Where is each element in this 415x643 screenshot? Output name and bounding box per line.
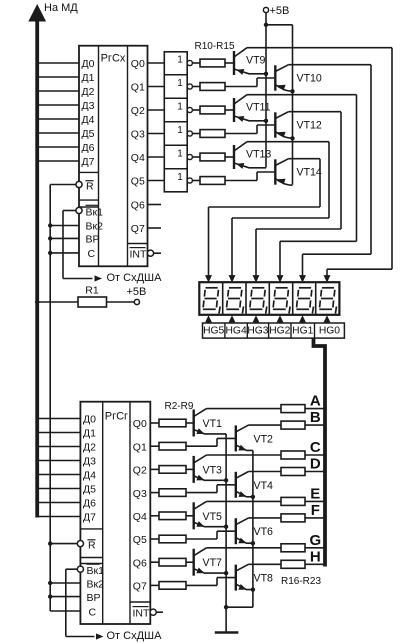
divider below Д7 (РгСх) — [79, 171, 99, 173]
wire Q0 (РгСг to R2) — [150, 422, 159, 424]
label VT8 — [254, 573, 274, 585]
pin label Д1 (РгСг) — [83, 428, 96, 440]
resistor R13 — [200, 130, 225, 138]
pin label Вк1 (РгСг) — [87, 564, 105, 577]
display digit segments HG1 — [296, 288, 313, 314]
pin Вк1 (РгСх) inversion circle and wire — [63, 207, 82, 213]
transistor VT3 — [186, 455, 226, 483]
display digit segments HG3 — [250, 288, 267, 314]
inverter cell 5 output circle — [187, 154, 192, 159]
wire joining emitter buses — [224, 605, 253, 609]
svg-text:Q1: Q1 — [131, 82, 145, 94]
svg-text:Вк2: Вк2 — [87, 578, 105, 590]
label На МД — [44, 2, 78, 14]
transistor VT13 — [225, 142, 329, 169]
pin label Д3 (РгСх) — [82, 100, 95, 112]
wire ВР (РгСг) — [48, 594, 80, 598]
pin label Q6 (РгСг) — [133, 557, 147, 569]
wire ВР (РгСх) — [48, 236, 79, 240]
wire emitter bus (VT1,3,5,7) to ground — [224, 434, 228, 607]
wire Q3 (РгСх to inverter 4) — [148, 133, 165, 135]
transistor VT14 — [225, 159, 320, 186]
svg-text:HG1: HG1 — [292, 326, 313, 337]
wire emitter bus (VT2,4,6,8) — [251, 450, 255, 607]
svg-text:РгСх: РгСх — [101, 53, 126, 65]
resistor R18 — [281, 451, 305, 459]
wire Д5 (bus to РгСх) — [39, 132, 79, 134]
svg-text:Q4: Q4 — [131, 152, 145, 164]
svg-text:R: R — [88, 539, 96, 551]
pin label Д4 (РгСх) — [82, 114, 95, 126]
label segment D — [310, 456, 321, 473]
node VT9 emitter to +5В rail — [264, 72, 268, 76]
wire collector VT10/HG1 to display digit — [299, 65, 371, 283]
svg-text:VT10: VT10 — [297, 73, 322, 85]
display digit segments HG4 — [226, 288, 243, 314]
pin label Q1 (РгСг) — [133, 441, 147, 453]
pin label Q0 (РгСх) — [131, 58, 145, 70]
label VT4 — [254, 480, 274, 492]
pin label Q5 (РгСх) — [131, 176, 145, 188]
pin label Q3 (РгСг) — [133, 488, 147, 500]
pin label Вк2 (РгСг) — [87, 578, 105, 590]
svg-text:HG2: HG2 — [269, 326, 290, 337]
resistor R17 — [281, 421, 305, 429]
bus На МД (thick data bus with up arrow) — [28, 4, 46, 518]
pin label Q6 (РгСх) — [131, 200, 145, 212]
pin R̄ (РгСх) inversion circle and wire — [50, 181, 82, 187]
svg-text:R10-R15: R10-R15 — [195, 41, 235, 52]
wire collector VT14/HG5 to display digit — [205, 159, 320, 283]
svg-text:Д2: Д2 — [83, 442, 96, 454]
svg-text:1: 1 — [177, 149, 183, 160]
transistor VT11 — [225, 95, 357, 122]
wire Д3 (bus to РгСх) — [39, 104, 79, 106]
wire +5В left rail — [265, 25, 267, 168]
svg-text:Q0: Q0 — [131, 58, 145, 70]
svg-text:D: D — [310, 456, 321, 473]
svg-text:Д7: Д7 — [83, 512, 96, 524]
svg-text:Q3: Q3 — [131, 129, 145, 141]
wire collector VT12/HG3 to display digit — [253, 112, 342, 283]
inverter cell 6 output circle — [187, 178, 192, 183]
pin label Q3 (РгСх) — [131, 129, 145, 141]
label HG1 — [292, 326, 313, 337]
wire R1 to +5В terminal — [107, 301, 135, 303]
svg-text:VT13: VT13 — [246, 148, 271, 160]
wire Д6 (bus to РгСг) — [39, 502, 80, 504]
pin label ВР (РгСх) — [86, 234, 100, 246]
inverter cell 1 output circle — [187, 60, 192, 65]
label R16-R23 — [281, 576, 321, 587]
svg-text:VT11: VT11 — [246, 101, 271, 113]
pin label Q7 (РгСх) — [131, 223, 145, 235]
svg-text:VT4: VT4 — [254, 480, 274, 492]
label segment B — [310, 409, 321, 426]
svg-text:VT6: VT6 — [254, 526, 274, 538]
svg-text:Д1: Д1 — [83, 428, 96, 440]
wire Д7 (bus to РгСг) — [39, 516, 80, 518]
label От СхДША (top) — [107, 272, 163, 284]
wire Д7 (bus to РгСх) — [39, 160, 79, 162]
wire inverter 3 to R12 — [192, 109, 200, 111]
svg-text:1: 1 — [177, 78, 183, 89]
wire segment-bus to display HG2 pin (up arrow) — [277, 315, 284, 323]
label segment C — [310, 439, 321, 456]
label VT2 — [254, 433, 274, 445]
svg-text:VT5: VT5 — [203, 511, 223, 523]
wire С (РгСг) — [50, 610, 80, 612]
transistor VT4 — [186, 472, 253, 498]
wire Q4 (РгСг to R6) — [150, 515, 159, 517]
wire R17 to segment bus — [305, 424, 324, 426]
svg-text:Q0: Q0 — [133, 418, 147, 430]
svg-text:1: 1 — [177, 55, 183, 66]
wire inverter 5 to R14 — [192, 156, 200, 158]
label R1 — [85, 285, 99, 297]
label VT3 — [203, 464, 223, 476]
wire Д3 (bus to РгСг) — [39, 460, 80, 462]
wire segment D (VT4 collector to R19) — [249, 471, 282, 473]
transistor VT5 — [186, 501, 226, 529]
svg-text:Q6: Q6 — [133, 557, 147, 569]
svg-text:Q5: Q5 — [133, 534, 147, 546]
label HG3 — [247, 326, 268, 337]
svg-text:1: 1 — [177, 102, 183, 113]
pin label Д5 (РгСх) — [82, 128, 95, 140]
resistor R23 — [281, 560, 305, 568]
resistor R1 — [78, 297, 107, 307]
label РгСх — [101, 53, 126, 65]
pin label Д6 (РгСх) — [82, 142, 95, 154]
wire Q7 (РгСг to R9) — [150, 584, 159, 586]
svg-text:VT14: VT14 — [297, 167, 322, 179]
wire segment-bus to display HG0 pin (up arrow) — [324, 315, 331, 323]
pin label Д4 (РгСг) — [83, 470, 96, 482]
svg-text:HG0: HG0 — [319, 326, 340, 337]
inverter cell 2 output circle — [187, 84, 192, 89]
label VT13 — [246, 148, 271, 160]
divider lines around R̄ (РгСх) — [79, 200, 99, 207]
pin label Q4 (РгСх) — [131, 152, 145, 164]
resistor R12 — [200, 106, 225, 114]
node VT11 emitter to +5В rail — [264, 119, 268, 123]
label HG5 — [203, 326, 224, 337]
pin label Вк1 (РгСх) — [86, 205, 104, 218]
display indicator block HG0-HG5 (box) — [199, 282, 339, 315]
wire Д4 (bus to РгСг) — [39, 474, 80, 476]
wire segment C (VT3 collector to R18) — [207, 454, 282, 456]
display digit segments HG2 — [273, 288, 290, 314]
svg-text:Д4: Д4 — [83, 470, 96, 482]
wire С (РгСх) — [48, 251, 79, 255]
pin label INT (РгСг) — [133, 607, 151, 620]
label HG2 — [269, 326, 290, 337]
pin label Д0 (РгСх) — [82, 58, 95, 70]
svg-text:HG3: HG3 — [247, 326, 268, 337]
pin label Вк2 (РгСх) — [86, 221, 104, 233]
wire inverter 1 to R10 — [192, 62, 200, 64]
pin label Д3 (РгСг) — [83, 456, 96, 468]
pin label С (РгСх) — [88, 248, 96, 260]
pin label Д7 (РгСг) — [83, 512, 96, 524]
wire Q2 (РгСх to inverter 3) — [148, 109, 165, 111]
svg-text:F: F — [311, 502, 320, 519]
svg-text:HG4: HG4 — [226, 326, 247, 337]
svg-text:От СхДША: От СхДША — [107, 272, 163, 284]
wire Q2 (РгСг to R4) — [150, 468, 159, 470]
pin label Д2 (РгСг) — [83, 442, 96, 454]
resistor R6 — [159, 512, 186, 520]
wire collector VT13/HG4 to display digit — [229, 142, 330, 283]
wire segment-bus to display HG5 pin (up arrow) — [205, 315, 212, 323]
pin label R̄ (РгСх) — [86, 180, 95, 192]
pin label Q4 (РгСг) — [133, 511, 147, 523]
wire R23 to segment bus — [305, 563, 324, 565]
node VT10 emitter to +5В rail — [290, 89, 294, 93]
svg-text:1: 1 — [177, 125, 183, 136]
inverter cell 1 label 1 — [177, 55, 183, 66]
svg-text:Д7: Д7 — [82, 156, 95, 168]
inverter cell 5 label 1 — [177, 149, 183, 160]
svg-text:R2-R9: R2-R9 — [165, 401, 194, 412]
resistor R8 — [159, 558, 186, 566]
display digit segments HG5 — [203, 288, 220, 314]
wire +5В down to rail junction — [264, 13, 268, 27]
svg-text:Q3: Q3 — [133, 488, 147, 500]
svg-text:Q7: Q7 — [133, 581, 147, 593]
svg-text:Q5: Q5 — [131, 176, 145, 188]
inverter cell 4 label 1 — [177, 125, 183, 136]
label R10-R15 — [195, 41, 235, 52]
label VT14 — [297, 167, 322, 179]
svg-text:Д0: Д0 — [83, 414, 96, 426]
wire segment H (VT8 collector to R23) — [249, 563, 282, 565]
svg-text:На МД: На МД — [44, 2, 78, 14]
pin label R̄ (РгСг) — [88, 539, 97, 551]
svg-text:VT2: VT2 — [254, 433, 274, 445]
pin label Д2 (РгСх) — [82, 86, 95, 98]
pin label С (РгСг) — [89, 606, 97, 618]
wire bus to R1 — [35, 300, 78, 304]
resistor R9 — [159, 582, 186, 590]
svg-text:РгСг: РгСг — [105, 411, 128, 423]
resistor R16 — [281, 405, 305, 413]
wire R22 to segment bus — [305, 547, 324, 549]
transistor VT2 — [186, 425, 253, 451]
svg-text:Д5: Д5 — [82, 128, 95, 140]
resistor R4 — [159, 466, 186, 474]
off-page arrow От СхДША (top) — [95, 275, 103, 281]
wire Q7 stub (РгСх) — [148, 227, 162, 229]
wire Q5 (РгСг to R7) — [150, 538, 159, 540]
inverter cell 3 label 1 — [177, 102, 183, 113]
wire +5В right rail — [292, 25, 294, 185]
pin label Q2 (РгСг) — [133, 465, 147, 477]
wire segment G (VT7 collector to R22) — [207, 547, 282, 549]
svg-text:Q7: Q7 — [131, 223, 145, 235]
wire Вк1(РгСх) to От СхДША — [63, 211, 93, 279]
label VT10 — [297, 73, 322, 85]
wire Вк2 (РгСх) — [48, 223, 79, 227]
svg-text:1: 1 — [177, 172, 183, 183]
resistor R2 — [159, 419, 186, 427]
svg-text:+5В: +5В — [127, 286, 147, 298]
transistor VT8 — [186, 564, 253, 590]
wire Вк2 (РгСг) — [48, 581, 80, 585]
terminal +5В (top) — [263, 7, 268, 12]
wire Д5 (bus to РгСг) — [39, 488, 80, 490]
svg-text:Д2: Д2 — [82, 86, 95, 98]
wire Д2 (bus to РгСг) — [39, 446, 80, 448]
pin label Q2 (РгСх) — [131, 105, 145, 117]
label VT7 — [203, 557, 223, 569]
svg-text:R: R — [86, 180, 94, 192]
pin label Д6 (РгСг) — [83, 498, 96, 510]
divider above INT (РгСх) — [128, 243, 148, 245]
wire segment E (VT5 collector to R20) — [207, 500, 282, 502]
display digit segments HG0 — [319, 288, 336, 314]
label +5В (top) — [270, 5, 290, 17]
wire R21 to segment bus — [305, 517, 324, 519]
pin label Д1 (РгСх) — [82, 72, 95, 84]
register U1 РгСх (box) — [79, 46, 148, 267]
svg-text:H: H — [310, 548, 321, 565]
label segment E — [310, 485, 320, 502]
wire Д6 (bus to РгСх) — [39, 146, 79, 148]
label HG4 — [226, 326, 247, 337]
svg-text:Д3: Д3 — [82, 100, 95, 112]
svg-text:Q6: Q6 — [131, 200, 145, 212]
wire segment F (VT6 collector to R21) — [249, 517, 282, 519]
resistor R19 — [281, 468, 305, 476]
transistor VT10 — [225, 65, 371, 92]
wire Д0 (bus to РгСг) — [39, 418, 80, 420]
svg-text:VT9: VT9 — [246, 54, 266, 66]
register U2 РгСг (box) — [80, 402, 150, 624]
resistor R20 — [281, 497, 305, 505]
svg-text:A: A — [310, 393, 321, 410]
svg-text:Q1: Q1 — [133, 441, 147, 453]
label segment F — [311, 502, 320, 519]
inverter cell 3 output circle — [187, 107, 192, 112]
display designator row (boxes) — [203, 323, 345, 338]
transistor VT7 — [186, 548, 226, 576]
wire segment B (VT2 collector to R17) — [249, 424, 282, 426]
wire Д2 (bus to РгСх) — [39, 90, 79, 92]
wire +5В top jog to right rail — [266, 24, 293, 26]
wire Q1 (РгСг to R3) — [150, 445, 159, 447]
wire segment-bus to display HG4 pin (up arrow) — [229, 315, 236, 323]
wire Q6 (РгСг to R8) — [150, 561, 159, 563]
inverter bank DD (6 logic cells) — [164, 52, 187, 192]
wire segment A (VT1 collector to R16) — [207, 408, 282, 410]
svg-text:R16-R23: R16-R23 — [281, 576, 321, 587]
svg-text:INT: INT — [130, 248, 148, 260]
terminal +5В (middle) — [134, 299, 139, 304]
wire Д1 (bus to РгСх) — [39, 76, 79, 78]
pin label Д0 (РгСг) — [83, 414, 96, 426]
wire Вк1(РгСг) to От СхДША — [66, 569, 95, 636]
transistor VT12 — [225, 112, 341, 139]
svg-text:VT1: VT1 — [203, 418, 223, 430]
svg-text:INT: INT — [133, 607, 151, 619]
wire inverter 6 to R15 — [192, 180, 200, 182]
svg-text:Вк2: Вк2 — [86, 221, 104, 233]
label segment G — [309, 532, 321, 549]
pin label Q5 (РгСг) — [133, 534, 147, 546]
svg-text:B: B — [310, 409, 321, 426]
pin label Q0 (РгСг) — [133, 418, 147, 430]
label R2-R9 — [165, 401, 194, 412]
svg-text:Вк1: Вк1 — [86, 206, 104, 218]
wire Д1 (bus to РгСг) — [39, 432, 80, 434]
svg-text:Д1: Д1 — [82, 72, 95, 84]
wire Q0 (РгСх to inverter 1) — [148, 62, 165, 64]
divider above INT (РгСг) — [130, 601, 150, 603]
svg-text:Д3: Д3 — [83, 456, 96, 468]
inverter cell 4 output circle — [187, 131, 192, 136]
wire segment-bus to display HG3 pin (up arrow) — [253, 315, 260, 323]
label +5В (middle) — [127, 286, 147, 298]
label VT6 — [254, 526, 274, 538]
bus display segment bundle (thick wire HG1 to A-H bus) — [314, 338, 326, 566]
pin label Д7 (РгСх) — [82, 156, 95, 168]
transistor VT6 — [186, 518, 253, 544]
svg-text:Д5: Д5 — [83, 484, 96, 496]
pin label ВР (РгСг) — [87, 592, 101, 604]
label РгСг — [105, 411, 128, 423]
svg-text:Q2: Q2 — [131, 105, 145, 117]
svg-text:C: C — [310, 439, 321, 456]
svg-text:G: G — [309, 532, 321, 549]
svg-text:Вк1: Вк1 — [87, 565, 105, 577]
svg-text:+5В: +5В — [270, 5, 290, 17]
label segment A — [310, 393, 321, 410]
svg-text:Q2: Q2 — [133, 465, 147, 477]
wire Q4 (РгСх to inverter 5) — [148, 156, 165, 158]
resistor R15 — [200, 177, 225, 185]
wire Q6 stub (РгСх) — [148, 204, 162, 206]
wire net R/Вк2/ВР/С vertical (connects РгСх and РгСг control pins) — [49, 185, 51, 612]
pin label Q1 (РгСх) — [131, 82, 145, 94]
wire segment-bus to display HG1 pin (up arrow) — [299, 315, 306, 323]
node VT12 emitter to +5В rail — [290, 136, 294, 140]
resistor R21 — [281, 514, 305, 522]
label VT11 — [246, 101, 271, 113]
divider below Д7 (РгСг) — [80, 528, 102, 530]
wire Q1 (РгСх to inverter 2) — [148, 86, 165, 88]
svg-text:Q4: Q4 — [133, 511, 147, 523]
wire Q5 (РгСх to inverter 6) — [148, 180, 165, 182]
label VT12 — [297, 120, 322, 132]
pin INT (РгСх) inversion circle and stub — [147, 250, 161, 256]
svg-text:С: С — [88, 248, 96, 260]
wire R16 to segment bus — [305, 408, 324, 410]
wire Д4 (bus to РгСх) — [39, 118, 79, 120]
label VT9 — [246, 54, 266, 66]
pin label INT (РгСх) — [130, 248, 148, 261]
wire R20 to segment bus — [305, 500, 324, 502]
pin label Q7 (РгСг) — [133, 581, 147, 593]
transistor VT9 — [225, 48, 392, 75]
svg-text:E: E — [310, 485, 320, 502]
resistor R5 — [159, 489, 186, 497]
svg-text:Д6: Д6 — [82, 142, 95, 154]
ground — [215, 607, 239, 632]
wire Д0 (bus to РгСх) — [39, 62, 79, 64]
svg-text:HG5: HG5 — [203, 326, 224, 337]
